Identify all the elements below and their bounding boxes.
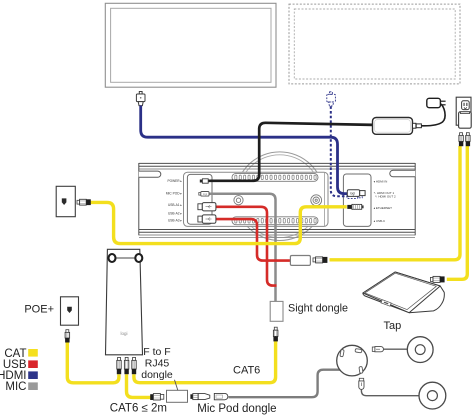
svg-text:USB-A1 ▸: USB-A1 ▸ (168, 203, 182, 207)
svg-text:◂ HDMI IN: ◂ HDMI IN (374, 180, 388, 184)
svg-text:dongle: dongle (141, 369, 173, 381)
svg-text:Tap: Tap (384, 320, 402, 332)
svg-text:F to F: F to F (143, 346, 170, 358)
svg-text:◂ ETHERNET: ◂ ETHERNET (374, 206, 393, 210)
svg-text:◂ USB-C: ◂ USB-C (374, 219, 387, 223)
svg-text:CAT6 ≤ 2m: CAT6 ≤ 2m (110, 403, 167, 415)
svg-text:POWER ▸: POWER ▸ (167, 179, 182, 183)
svg-text:CAT: CAT (4, 348, 26, 360)
svg-text:MIC: MIC (5, 381, 26, 393)
svg-text:POE+: POE+ (24, 303, 54, 315)
svg-text:logi: logi (203, 192, 207, 196)
svg-text:logi: logi (121, 331, 128, 336)
svg-text:USB-A3 ▸: USB-A3 ▸ (168, 219, 182, 223)
svg-text:Mic Pod dongle: Mic Pod dongle (197, 403, 276, 415)
svg-text:CAT6: CAT6 (233, 365, 260, 377)
svg-text:MIC POD ▸: MIC POD ▸ (166, 191, 183, 195)
svg-text:logi: logi (350, 192, 355, 196)
svg-text:RJ45: RJ45 (145, 357, 170, 369)
svg-text:USB-A2 ▸: USB-A2 ▸ (168, 211, 182, 215)
svg-text:Sight dongle: Sight dongle (288, 302, 348, 314)
svg-text:↖ HDMI OUT 2: ↖ HDMI OUT 2 (375, 194, 396, 198)
